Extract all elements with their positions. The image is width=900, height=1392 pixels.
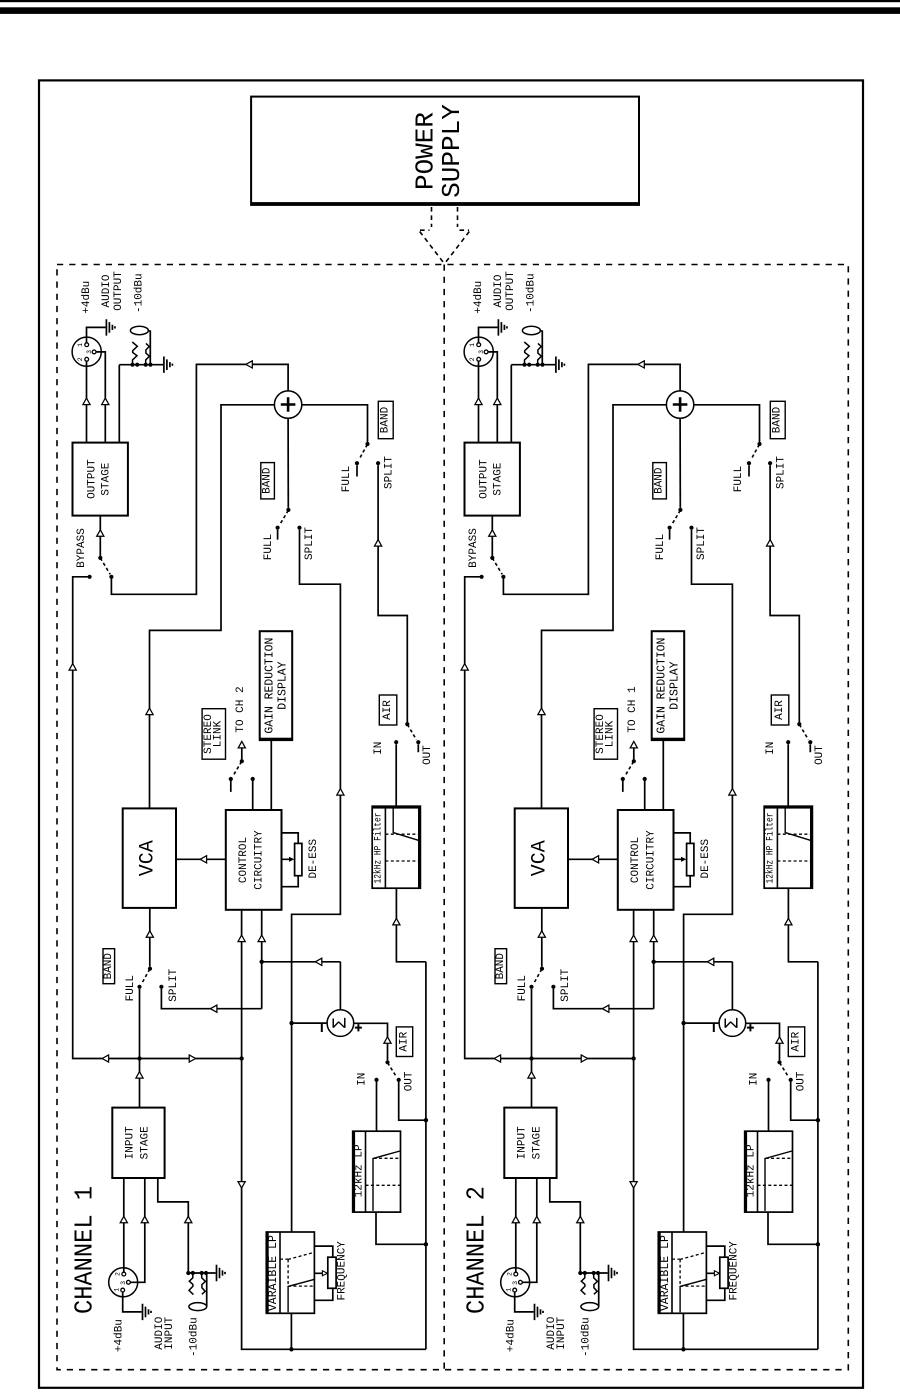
svg-text:TO CH 1: TO CH 1 (627, 686, 639, 733)
channel 1 (69, 271, 434, 1357)
dashed hollow arrow from power supply (420, 207, 470, 264)
svg-text:CHANNEL 2: CHANNEL 2 (461, 1186, 491, 1314)
power supply box (251, 97, 639, 205)
dashed channel divider (443, 265, 445, 1370)
header rule thin (0, 0, 900, 2)
header rule thick (0, 7, 900, 14)
svg-text:TO CH 2: TO CH 2 (235, 686, 247, 732)
channel 2 (461, 271, 826, 1357)
dashed enclosure (57, 265, 848, 1370)
svg-text:CHANNEL 1: CHANNEL 1 (69, 1186, 99, 1314)
svg-text:SUPPLY: SUPPLY (437, 104, 467, 198)
